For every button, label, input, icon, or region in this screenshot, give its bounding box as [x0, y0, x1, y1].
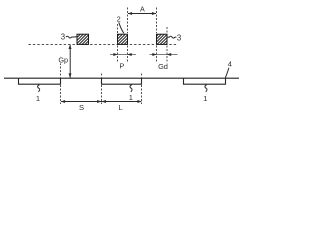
svg-text:3: 3	[61, 32, 65, 41]
svg-text:Gd: Gd	[158, 62, 168, 71]
svg-text:1: 1	[36, 94, 40, 103]
svg-text:L: L	[119, 103, 123, 112]
svg-text:1: 1	[129, 93, 133, 102]
svg-text:3: 3	[177, 33, 181, 42]
svg-text:1: 1	[203, 94, 207, 103]
svg-text:A: A	[140, 5, 145, 13]
svg-text:4: 4	[228, 60, 232, 69]
svg-text:S: S	[79, 103, 84, 112]
svg-text:P: P	[119, 61, 124, 70]
svg-text:2: 2	[117, 14, 121, 23]
svg-text:Gp: Gp	[58, 55, 68, 64]
